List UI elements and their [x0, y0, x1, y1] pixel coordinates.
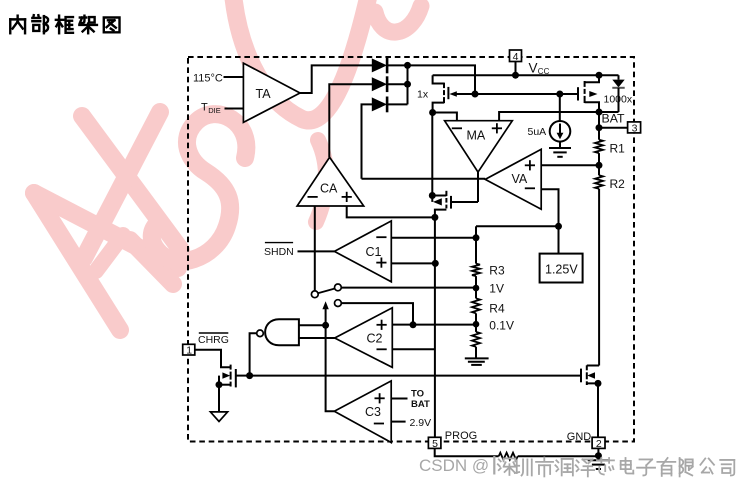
- ground below divider: [465, 347, 489, 365]
- node junction dot diodes 2: [404, 81, 411, 88]
- wire 0.1V to C2 plus: [341, 303, 413, 325]
- resistor R4: [472, 298, 505, 315]
- wire Vcc rail: [433, 74, 619, 76]
- resistor R5: [472, 332, 480, 347]
- svg-text:R4: R4: [489, 302, 505, 316]
- resistor R1: [595, 140, 625, 156]
- op-amp MA: [445, 121, 513, 172]
- comparator C3: [334, 381, 391, 443]
- switch control arrow: [322, 301, 328, 325]
- svg-text:1.25V: 1.25V: [545, 263, 578, 277]
- ground Q3 open triangle: [210, 385, 227, 422]
- node dot Q4 source: [595, 380, 602, 387]
- wire divider top corner: [475, 226, 477, 263]
- svg-text:2.9V: 2.9V: [410, 417, 432, 429]
- svg-text:PROG: PROG: [445, 430, 477, 442]
- transistor Q2 1000x PMOS: [578, 75, 633, 112]
- ground below pin2: [588, 460, 609, 469]
- node CHRG label: [198, 333, 229, 346]
- svg-text:CC: CC: [538, 67, 550, 76]
- gate NAND G1: [250, 319, 335, 375]
- svg-text:TA: TA: [256, 87, 272, 101]
- svg-text:1V: 1V: [489, 282, 504, 296]
- node junction dot mirror gate: [472, 91, 479, 98]
- wire gate line to 1000x gate: [475, 93, 578, 95]
- op-amp CA: [297, 157, 364, 206]
- node dot 0.1V tap: [473, 321, 480, 328]
- wire R2 down to power FET: [598, 189, 600, 366]
- node dot VA plus tap: [596, 162, 603, 169]
- svg-text:BAT: BAT: [602, 111, 625, 125]
- svg-text:C3: C3: [365, 405, 381, 419]
- wire 1V line: [341, 287, 476, 289]
- wire R4 to R5: [475, 313, 477, 332]
- comparator C2: [335, 308, 393, 368]
- watermark AXS stamp text: [34, 0, 421, 330]
- node dot 1V tap: [473, 285, 480, 292]
- current source 5uA: [528, 94, 571, 142]
- svg-text:C2: C2: [367, 331, 383, 345]
- svg-text:V: V: [529, 61, 538, 76]
- transistor Q1 1x PMOS: [417, 75, 457, 112]
- switch contact 0.1V: [335, 300, 342, 307]
- wire C1 minus input: [391, 237, 476, 239]
- svg-text:SHDN: SHDN: [264, 246, 294, 258]
- svg-text:5: 5: [432, 438, 438, 450]
- switch lever: [318, 289, 335, 294]
- wire R1 R2 rail: [598, 153, 600, 175]
- wire mirror drain to M1: [431, 113, 433, 196]
- pin 4 box: [510, 50, 522, 75]
- wire MA/VA output node: [362, 178, 486, 180]
- node dot ref node: [555, 223, 562, 230]
- wire C3 plus stub: [391, 398, 407, 400]
- node dot 5uA gate tap: [556, 91, 563, 98]
- svg-text:1x: 1x: [417, 89, 429, 101]
- wire PROG external: [435, 448, 499, 456]
- transistor M1: [432, 191, 478, 218]
- wire main gate line: [250, 375, 581, 377]
- wire VA plus input: [541, 164, 599, 166]
- wire C3 minus stub: [391, 421, 405, 423]
- op-amp VA: [485, 149, 541, 209]
- wire CA plus input: [347, 206, 435, 217]
- wire C2 plus input: [392, 324, 476, 326]
- svg-text:T: T: [201, 102, 208, 114]
- wire R3 to R4: [475, 276, 477, 298]
- wire output-node riser to diode D3: [362, 104, 373, 178]
- node dot CA plus / prog line top: [431, 214, 438, 221]
- node dot NAND output gate node: [246, 372, 253, 379]
- node dot BAT top: [596, 109, 603, 116]
- transistor Q3 CHRG pulldown: [219, 365, 250, 388]
- diode D1: [372, 58, 408, 74]
- svg-text:C1: C1: [366, 245, 382, 259]
- wire SHDN to C1 output: [298, 250, 335, 252]
- node dot C1 minus tap: [473, 234, 480, 241]
- pin 5 box PROG: [428, 430, 477, 450]
- wire CA minus input down to switch: [314, 206, 316, 291]
- svg-text:5uA: 5uA: [528, 126, 547, 138]
- node SHDN label: [264, 243, 294, 258]
- svg-text:CHRG: CHRG: [198, 334, 229, 346]
- op-amp TA: [243, 63, 300, 122]
- node dot nand top input: [322, 322, 329, 329]
- wire CA apex to diode D2: [329, 84, 372, 157]
- node dot GND: [595, 452, 602, 459]
- node 115C label: [193, 73, 223, 85]
- ground below 5uA: [549, 142, 571, 157]
- svg-text:4: 4: [513, 51, 519, 63]
- pin 3 box: [599, 122, 641, 134]
- svg-text:MA: MA: [467, 129, 486, 143]
- node dot C1 plus: [432, 260, 439, 267]
- wire ref node to divider top: [476, 225, 559, 227]
- wire C2 minus input: [392, 348, 435, 350]
- wire MA output stub: [477, 172, 479, 179]
- node Vcc dot: [512, 72, 519, 79]
- diode D3: [372, 97, 408, 113]
- resistor Rprog: [499, 453, 518, 460]
- wire GND pin down: [597, 448, 599, 460]
- svg-text:R2: R2: [610, 177, 626, 191]
- wire C1 plus input: [391, 262, 435, 264]
- svg-text:GND: GND: [567, 431, 592, 443]
- svg-text:R1: R1: [610, 142, 626, 156]
- pin 2 box GND: [567, 431, 605, 450]
- svg-text:115°C: 115°C: [193, 73, 223, 85]
- node TO BAT label: [411, 389, 430, 410]
- node dot BAT pin: [596, 124, 603, 131]
- comparator C1: [334, 221, 391, 282]
- transistor Q4 power NMOS: [581, 365, 599, 437]
- svg-text:BAT: BAT: [411, 399, 430, 410]
- svg-text:DIE: DIE: [208, 106, 221, 115]
- svg-text:CSDN @: CSDN @: [419, 456, 489, 475]
- pin 1 box: [183, 344, 195, 356]
- node dot C2 plus: [410, 321, 417, 328]
- resistor R3: [472, 264, 505, 278]
- resistor R2: [595, 175, 625, 191]
- reference 1.25V box: [540, 226, 583, 282]
- wire pin1 to Q3: [195, 350, 231, 368]
- node dot M1 drain: [429, 192, 436, 199]
- svg-text:2: 2: [596, 438, 602, 450]
- diode D4 body diode: [612, 75, 624, 112]
- node junction dot diodes 1: [404, 62, 411, 69]
- switch contact 1V: [335, 284, 342, 291]
- wire MA minus input: [433, 113, 457, 121]
- svg-text:1: 1: [186, 345, 192, 357]
- svg-text:CA: CA: [320, 181, 338, 195]
- svg-text:VA: VA: [512, 172, 528, 186]
- wire cathode bus to mirror gates: [408, 65, 476, 94]
- svg-text:0.1V: 0.1V: [489, 319, 514, 333]
- wire BAT drop to pin3: [598, 112, 600, 140]
- title 内部框架图: [10, 15, 119, 33]
- wire TA output to diodes: [300, 65, 373, 93]
- dashed border frame: [188, 57, 634, 442]
- wire diode cathode bus: [407, 65, 409, 104]
- wire M1 gate riser: [477, 179, 479, 202]
- svg-text:R3: R3: [489, 264, 505, 278]
- node Vcc-1000x dot: [596, 72, 603, 79]
- node dot Q3 source: [216, 381, 223, 388]
- wire gate line to 1x gate: [452, 93, 475, 95]
- node Vcc label: [529, 61, 550, 77]
- switch common contact: [311, 291, 318, 298]
- wire control riser to C3 output: [326, 325, 335, 411]
- diode D2: [372, 76, 408, 92]
- wire Rprog to GND: [518, 455, 599, 457]
- wire 115C to TA: [224, 76, 244, 78]
- node dot MA minus: [429, 109, 436, 116]
- node TDIE label: [201, 102, 221, 116]
- wire MA plus input / BAT sense: [499, 112, 618, 121]
- wire VA minus input: [541, 189, 558, 226]
- wire TDIE to TA: [225, 108, 244, 110]
- svg-text:3: 3: [632, 122, 638, 134]
- wire prog vertical line: [434, 217, 436, 437]
